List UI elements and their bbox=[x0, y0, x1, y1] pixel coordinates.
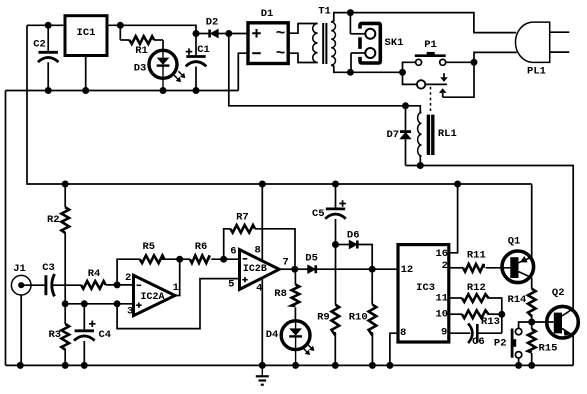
node pin3 loop junction bbox=[114, 300, 121, 307]
svg-text:R14: R14 bbox=[507, 294, 526, 306]
svg-text:C6: C6 bbox=[472, 336, 485, 348]
ground symbol bbox=[256, 365, 269, 384]
relay coil RL1 bbox=[406, 106, 457, 166]
mains plug PL1 bbox=[515, 22, 569, 78]
svg-text:D3: D3 bbox=[134, 63, 147, 75]
node C4 junction bbox=[81, 300, 88, 307]
svg-text:D2: D2 bbox=[206, 16, 219, 28]
node C1 bottom junction bbox=[193, 87, 200, 94]
node IC3 V+ junction bbox=[454, 181, 461, 188]
wire Q1 emitter bbox=[531, 184, 533, 257]
capacitor C1 bbox=[186, 34, 210, 91]
pushbutton P2 bbox=[494, 322, 532, 365]
LED D3 bbox=[134, 40, 186, 91]
resistor R6 bbox=[180, 241, 240, 263]
svg-text:C2: C2 bbox=[33, 38, 46, 50]
wire D5 node to IC3 pin12 bbox=[372, 268, 398, 270]
op-amp IC2A bbox=[125, 272, 179, 317]
svg-text:PL1: PL1 bbox=[527, 66, 546, 78]
bridge rectifier D1 bbox=[248, 8, 288, 64]
wire bridge minus bbox=[238, 53, 248, 90]
svg-text:D7: D7 bbox=[386, 129, 399, 141]
resistor R14 bbox=[507, 278, 535, 322]
resistor R2 bbox=[47, 184, 69, 304]
op-amp IC2B bbox=[228, 245, 289, 295]
node IC2 V+ junction bbox=[259, 181, 266, 188]
resistor R7 bbox=[224, 211, 295, 269]
wire Q2 emitter ground bbox=[572, 336, 574, 366]
node mains switch junction bbox=[471, 59, 478, 66]
mains socket SK1 bbox=[350, 13, 403, 73]
node C5/D6/R9 junction bbox=[332, 241, 339, 248]
diode D6 bbox=[336, 230, 373, 270]
capacitor C2 bbox=[33, 25, 58, 90]
resistor R4 bbox=[81, 268, 134, 289]
capacitor C3 bbox=[21, 262, 81, 296]
wire +12V output rail (IC1 out, y=25) bbox=[27, 24, 65, 26]
node R5/R6 junction bbox=[176, 256, 183, 263]
node pin8 ground junction bbox=[386, 362, 393, 369]
node P1 left junction bbox=[399, 69, 406, 76]
node relay feed junction bbox=[402, 102, 409, 109]
svg-text:P2: P2 bbox=[494, 338, 507, 350]
wire IC2 pin8 supply bbox=[261, 184, 263, 261]
node IC2A pin2 junction bbox=[114, 281, 121, 288]
node relay bottom junction bbox=[417, 162, 424, 169]
resistor R3 bbox=[48, 304, 69, 366]
wire bridge ac top bbox=[288, 24, 317, 34]
svg-text:2: 2 bbox=[442, 260, 448, 272]
svg-text:IC1: IC1 bbox=[77, 27, 96, 39]
IC1 voltage regulator bbox=[65, 16, 107, 56]
svg-text:~: ~ bbox=[276, 45, 286, 63]
svg-text:R15: R15 bbox=[539, 343, 558, 355]
wire base node to Q2 bbox=[532, 321, 554, 323]
resistor R10 bbox=[349, 269, 377, 365]
resistor R9 bbox=[317, 245, 339, 366]
resistor R5 bbox=[117, 241, 180, 285]
node D6/R10 junction bbox=[369, 266, 376, 273]
svg-text:3: 3 bbox=[127, 305, 133, 317]
svg-text:R12: R12 bbox=[467, 282, 486, 294]
svg-text:R7: R7 bbox=[236, 211, 249, 223]
wire IC1 input bbox=[107, 25, 196, 33]
svg-text:RL1: RL1 bbox=[438, 128, 457, 140]
svg-text:R3: R3 bbox=[48, 329, 61, 341]
svg-text:6: 6 bbox=[230, 246, 236, 258]
wire relay to Q2 collector bbox=[420, 166, 573, 309]
svg-text:8: 8 bbox=[254, 245, 260, 257]
node T1 primary top junction bbox=[347, 9, 354, 16]
resistor R11 bbox=[449, 250, 511, 272]
capacitor C5 bbox=[312, 184, 346, 245]
svg-text:IC3: IC3 bbox=[416, 282, 435, 294]
node pin7 junction bbox=[291, 266, 298, 273]
svg-text:11: 11 bbox=[435, 292, 448, 304]
freewheel diode D7 bbox=[386, 106, 411, 166]
svg-text:R9: R9 bbox=[317, 312, 330, 324]
node R2/R3 bias junction bbox=[62, 300, 69, 307]
resistor R1 bbox=[120, 25, 163, 57]
wire IC2B output bbox=[279, 268, 295, 270]
svg-text:9: 9 bbox=[441, 327, 447, 339]
wire top ground rail y=90.5 bbox=[6, 90, 239, 92]
node R3 bottom junction bbox=[62, 362, 69, 369]
svg-text:C1: C1 bbox=[197, 44, 210, 56]
IC3 timer bbox=[398, 245, 449, 342]
svg-text:R1: R1 bbox=[135, 45, 148, 57]
wire primary bottom rail bbox=[350, 71, 402, 73]
wire bottom ground rail bbox=[6, 364, 574, 366]
svg-text:R11: R11 bbox=[467, 250, 486, 262]
svg-text:8: 8 bbox=[400, 327, 406, 339]
node C4 bottom junction bbox=[81, 362, 88, 369]
svg-text:C3: C3 bbox=[42, 262, 55, 274]
node R12/R13 junction bbox=[498, 311, 505, 318]
wire IC3 pin16 supply bbox=[449, 184, 458, 253]
node P2 ground junction bbox=[515, 362, 522, 369]
resistor R13 bbox=[449, 310, 502, 327]
svg-text:C5: C5 bbox=[312, 208, 325, 220]
svg-text:C4: C4 bbox=[98, 329, 111, 341]
wire bridge+ to D1 bbox=[229, 33, 248, 35]
svg-text:12: 12 bbox=[401, 264, 414, 276]
transistor Q1 bbox=[502, 236, 534, 283]
svg-text:D6: D6 bbox=[347, 230, 360, 242]
node IC2B pin6 junction bbox=[220, 256, 227, 263]
wire IC1 ground pin bbox=[85, 56, 87, 91]
wire IC2 pin4 ground bbox=[261, 278, 263, 366]
svg-text:2: 2 bbox=[125, 272, 131, 284]
svg-text:R13: R13 bbox=[481, 316, 500, 328]
node D3 bottom junction bbox=[160, 87, 167, 94]
svg-text:Q1: Q1 bbox=[508, 236, 521, 248]
node C2 top junction bbox=[45, 22, 52, 29]
node IC1 gnd junction bbox=[82, 87, 89, 94]
node R10 bottom junction bbox=[369, 362, 376, 369]
wire left ground vertical x=5.5 bbox=[5, 91, 7, 366]
svg-text:R8: R8 bbox=[274, 288, 287, 300]
svg-text:R5: R5 bbox=[142, 241, 155, 253]
svg-text:1: 1 bbox=[173, 282, 179, 294]
wire pin5 bias loop bbox=[117, 279, 239, 329]
svg-text:J1: J1 bbox=[13, 263, 26, 275]
svg-text:7: 7 bbox=[282, 256, 288, 268]
wire relay bottom rail bbox=[406, 165, 421, 167]
svg-text:SK1: SK1 bbox=[385, 37, 404, 49]
wire pin3 bias line bbox=[65, 303, 133, 305]
wire IC2A output loop bbox=[175, 259, 180, 295]
diode D5 bbox=[295, 252, 372, 273]
svg-text:T1: T1 bbox=[318, 5, 331, 17]
node ground junction bbox=[259, 362, 266, 369]
capacitor C6 bbox=[449, 314, 502, 348]
wire P1 right to mains node bbox=[446, 61, 474, 63]
svg-text:Q2: Q2 bbox=[552, 287, 565, 299]
node C2 bottom junction bbox=[45, 87, 52, 94]
node R9 bottom junction bbox=[332, 362, 339, 369]
diode D2 bbox=[196, 16, 229, 37]
svg-text:~: ~ bbox=[276, 25, 286, 43]
svg-text:10: 10 bbox=[435, 309, 448, 321]
svg-text:D4: D4 bbox=[266, 329, 279, 341]
svg-text:D1: D1 bbox=[261, 8, 274, 20]
resistor R15 bbox=[528, 322, 558, 365]
resistor R8 bbox=[274, 269, 299, 320]
node D4 bottom junction bbox=[292, 362, 299, 369]
pushbutton P1 bbox=[403, 39, 446, 72]
node R15 ground junction bbox=[528, 362, 535, 369]
wire IC3 pin8 ground bbox=[390, 333, 398, 365]
svg-text:16: 16 bbox=[435, 248, 448, 260]
svg-text:IC2A: IC2A bbox=[140, 292, 164, 303]
node bridge+ junction bbox=[225, 30, 232, 37]
wire bridge ac bottom bbox=[288, 53, 317, 62]
wire +12V feed down left side bbox=[27, 25, 532, 184]
LED D4 bbox=[266, 321, 315, 366]
node Q2 base junction bbox=[528, 319, 535, 326]
capacitor C4 bbox=[74, 304, 111, 366]
svg-text:R6: R6 bbox=[195, 241, 208, 253]
svg-text:R10: R10 bbox=[349, 312, 368, 324]
resistor R12 bbox=[449, 282, 502, 314]
node R2 top junction bbox=[62, 181, 69, 188]
node J1 ground junction bbox=[17, 362, 24, 369]
node T1 primary bottom junction bbox=[347, 69, 354, 76]
svg-text:P1: P1 bbox=[424, 39, 437, 51]
svg-text:5: 5 bbox=[228, 278, 234, 290]
input jack J1 bbox=[11, 263, 31, 365]
node C5 top junction bbox=[332, 181, 339, 188]
transformer T1 bbox=[313, 5, 351, 72]
wire mains top run bbox=[350, 13, 516, 33]
wire relay supply feed bbox=[229, 34, 406, 106]
node R1 tap junction bbox=[117, 22, 124, 29]
svg-text:R4: R4 bbox=[88, 268, 101, 280]
relay contact RL1a bbox=[403, 62, 475, 112]
svg-text:D5: D5 bbox=[305, 252, 318, 264]
transistor Q2 bbox=[547, 287, 579, 338]
svg-text:R2: R2 bbox=[47, 214, 60, 226]
wire mains bottom run bbox=[474, 52, 517, 62]
svg-text:IC2B: IC2B bbox=[243, 264, 267, 275]
node C1 top junction bbox=[193, 30, 200, 37]
